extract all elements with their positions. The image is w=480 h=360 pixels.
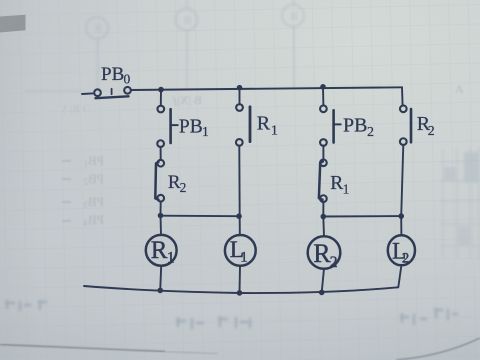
wire rung1 PB1 to R2 contact	[160, 147, 162, 160]
faint marks right middle	[440, 147, 480, 260]
label R2 coil	[313, 239, 337, 271]
node link1 right junction	[236, 213, 242, 219]
node top rail junction 1	[158, 87, 164, 93]
wire link node to coil R1	[160, 216, 163, 235]
top rail wire	[131, 87, 402, 90]
wire link1	[161, 215, 240, 218]
lamp L1	[225, 235, 256, 266]
label PB0	[101, 64, 131, 87]
wire left stub	[82, 92, 93, 95]
page edge line bottom-left	[0, 345, 165, 352]
label L2 lamp	[392, 239, 409, 267]
relay contact R2 (NC)	[155, 160, 164, 202]
wire rung1 from rail to PB1	[160, 90, 162, 106]
label PB1	[179, 116, 209, 139]
wire rung2 from rail to R1 contact	[239, 88, 241, 105]
node bottom rail junction 2	[237, 290, 243, 296]
mirrored korean bleed text bottom (abstract strokes)	[5, 300, 458, 329]
wire link2	[323, 215, 401, 217]
label R1 contact rung3	[330, 173, 349, 197]
pushbutton contact PB2 (NO)	[320, 105, 341, 145]
lamp L2	[388, 235, 415, 265]
label R2 contact rung4	[417, 113, 435, 139]
relay coil R1	[146, 235, 177, 266]
wire rung1 R2 contact to link node	[160, 201, 162, 215]
wire rung4 contact to link node	[401, 145, 403, 216]
wire rung3 from rail to PB2	[322, 87, 324, 106]
wire link node to coil R2	[322, 217, 325, 237]
wire rung2 to coil L1	[238, 146, 241, 236]
page curl bottom-right	[398, 339, 480, 360]
node top rail junction 3	[320, 84, 326, 90]
gray block top-left	[0, 15, 26, 33]
node link2 left junction	[321, 214, 327, 220]
wire L1 to bottom	[239, 266, 242, 293]
wire rung3 to link node	[322, 202, 324, 217]
relay coil R2	[308, 236, 341, 269]
relay contact R2 (NO) rung4	[400, 105, 411, 144]
bottom rail wire	[84, 286, 398, 293]
wire coil R2 to bottom rail	[322, 269, 324, 293]
wire top rail corner down to R2 contact	[401, 87, 404, 105]
relay contact R1 (NC) rung3	[319, 159, 327, 202]
bleed-through layer (back of page, mirrored)	[25, 0, 304, 91]
node link2 right junction	[398, 213, 404, 219]
wire lamp L2 to bottom rail	[398, 265, 401, 287]
node link1 left junction	[158, 213, 164, 219]
pushbutton PB0 (NC)	[94, 87, 131, 98]
node bottom rail junction 1	[157, 288, 163, 294]
label R1 contact rung2	[257, 112, 278, 138]
label L1 lamp	[230, 237, 248, 266]
node top rail junction 2	[237, 85, 243, 91]
label R2 contact	[168, 172, 186, 195]
wire coil R1 to bottom rail	[160, 266, 161, 291]
label PB2	[343, 115, 374, 141]
node bottom rail junction 3	[319, 290, 325, 296]
label R1 coil	[151, 237, 175, 267]
pushbutton contact PB1 (NO)	[157, 106, 177, 147]
wire rung3 PB2 to R1 contact	[322, 146, 324, 160]
relay contact R1 (NO)	[236, 104, 250, 146]
wire link node to lamp L2	[400, 216, 402, 235]
